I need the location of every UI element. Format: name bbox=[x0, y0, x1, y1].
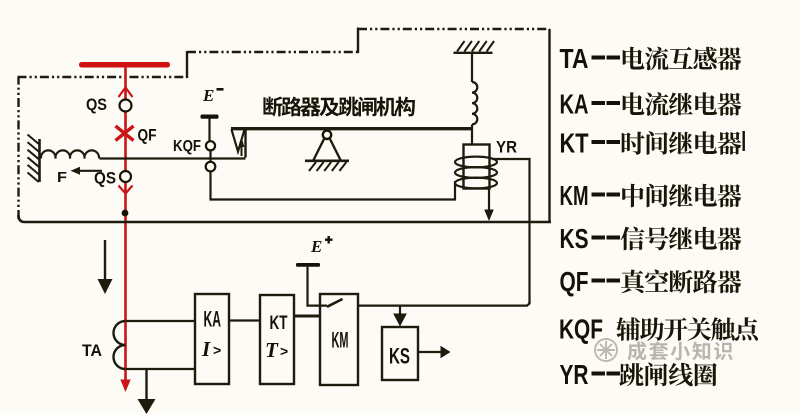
svg-text:KS: KS bbox=[389, 344, 410, 369]
svg-text:QF: QF bbox=[138, 127, 157, 145]
KQF contact circle top bbox=[206, 141, 215, 150]
legend line KT bbox=[560, 128, 745, 159]
svg-text:QS: QS bbox=[94, 170, 116, 188]
fulcrum triangle bbox=[314, 138, 325, 160]
watermark logo bbox=[595, 339, 617, 361]
junction dot bbox=[122, 210, 129, 217]
watermark text 成套小知识 bbox=[628, 341, 733, 360]
wire E+ down to KM contact bbox=[308, 267, 328, 306]
relay KM box bbox=[320, 294, 358, 385]
TA secondary wire top bbox=[126, 320, 195, 322]
E+ battery bar bbox=[296, 263, 320, 267]
fulcrum pivot circle bbox=[323, 131, 331, 139]
wire ground to spring bbox=[471, 53, 473, 82]
KM contact blade bbox=[327, 299, 343, 307]
QF breaker red X bbox=[116, 126, 134, 141]
QS switch circle 1 bbox=[120, 100, 132, 112]
legend line QF bbox=[560, 266, 742, 297]
relay KA box bbox=[195, 294, 229, 384]
F direction arrow (left) bbox=[79, 170, 102, 172]
YR trip coil body bbox=[464, 145, 490, 189]
svg-text:KM: KM bbox=[332, 328, 349, 353]
ground hatch (top right) bbox=[454, 52, 493, 54]
lever beam bbox=[231, 127, 472, 130]
boundary dash-dot frame left/top bbox=[18, 28, 550, 220]
svg-text:KM: KM bbox=[560, 180, 589, 211]
current direction arrow bbox=[98, 240, 113, 294]
TA secondary wire bottom bbox=[126, 368, 195, 370]
wire KA-KT bbox=[229, 319, 260, 321]
svg-text:TA: TA bbox=[560, 43, 589, 74]
svg-text:E: E bbox=[310, 237, 322, 256]
legend line TA bbox=[560, 43, 742, 74]
svg-text:>: > bbox=[280, 343, 288, 359]
YR winding turns bbox=[455, 157, 497, 168]
svg-text:F: F bbox=[57, 169, 67, 186]
latch pawl arrow (up) bbox=[239, 137, 245, 156]
legend line KQF bbox=[559, 314, 758, 345]
return wire (bottom of control loop) bbox=[19, 215, 552, 222]
svg-text:KA: KA bbox=[204, 307, 222, 332]
svg-text:YR: YR bbox=[560, 359, 589, 390]
CT ground arrow bbox=[138, 369, 156, 414]
svg-text:I: I bbox=[201, 337, 211, 361]
busbar (red) bbox=[79, 62, 170, 68]
svg-text:QF: QF bbox=[560, 266, 589, 297]
svg-text:KT: KT bbox=[270, 313, 288, 334]
svg-text:KQF: KQF bbox=[173, 138, 201, 155]
E- label bbox=[202, 86, 224, 105]
wire KQF bottom to YR return bbox=[211, 171, 456, 199]
svg-text:KT: KT bbox=[560, 128, 589, 159]
legend line YR bbox=[560, 359, 717, 390]
relay KS box bbox=[382, 327, 418, 380]
red chevron up (QS contact) bbox=[119, 88, 133, 98]
E+ label bbox=[310, 236, 333, 256]
KQF link wire bbox=[209, 150, 211, 162]
svg-text:TA: TA bbox=[82, 342, 102, 360]
wire KT-KM bbox=[294, 315, 320, 318]
title 断路器及跳闸机构 bbox=[263, 97, 414, 117]
relay KT box bbox=[260, 295, 294, 384]
wire YR right to trip loop bbox=[492, 159, 530, 304]
E- battery bar bbox=[201, 115, 219, 119]
YR bottom arrow to return wire bbox=[484, 189, 494, 222]
svg-text:KS: KS bbox=[560, 223, 589, 254]
svg-text:KQF: KQF bbox=[559, 314, 603, 345]
QS switch circle 2 bbox=[120, 171, 131, 182]
svg-text:YR: YR bbox=[496, 139, 517, 157]
red chevron down (QS contact 2) bbox=[119, 186, 133, 194]
svg-text:KA: KA bbox=[560, 89, 589, 120]
red feeder arrowhead bbox=[120, 380, 130, 393]
fulcrum ground line bbox=[305, 160, 349, 163]
KA value label I> bbox=[201, 337, 221, 361]
latch flag V bbox=[232, 130, 245, 152]
KS branch arrow bbox=[393, 306, 407, 327]
KT value label T> bbox=[265, 338, 288, 362]
KS output arrow bbox=[418, 346, 451, 358]
spring coil bbox=[472, 82, 477, 124]
wall (hatched anchor) bbox=[38, 139, 41, 182]
inductor L (arc suppression coil) bbox=[41, 150, 99, 158]
svg-text:>: > bbox=[213, 342, 221, 358]
wire E- to KQF bbox=[208, 119, 210, 142]
svg-text:T: T bbox=[265, 338, 279, 362]
red feeder wire bbox=[124, 65, 127, 380]
KQF contact circle bottom bbox=[206, 162, 216, 172]
TA current transformer arcs bbox=[114, 321, 126, 369]
wire inductor to latch bbox=[100, 157, 246, 159]
legend line KM bbox=[560, 180, 742, 211]
boundary right border bbox=[548, 29, 550, 221]
wire spring to YR bbox=[471, 124, 473, 145]
latch vertical bar bbox=[244, 128, 246, 158]
legend line KS bbox=[560, 223, 742, 254]
svg-text:QS: QS bbox=[86, 96, 107, 114]
svg-text:E: E bbox=[202, 86, 214, 105]
legend line KA bbox=[560, 89, 742, 120]
